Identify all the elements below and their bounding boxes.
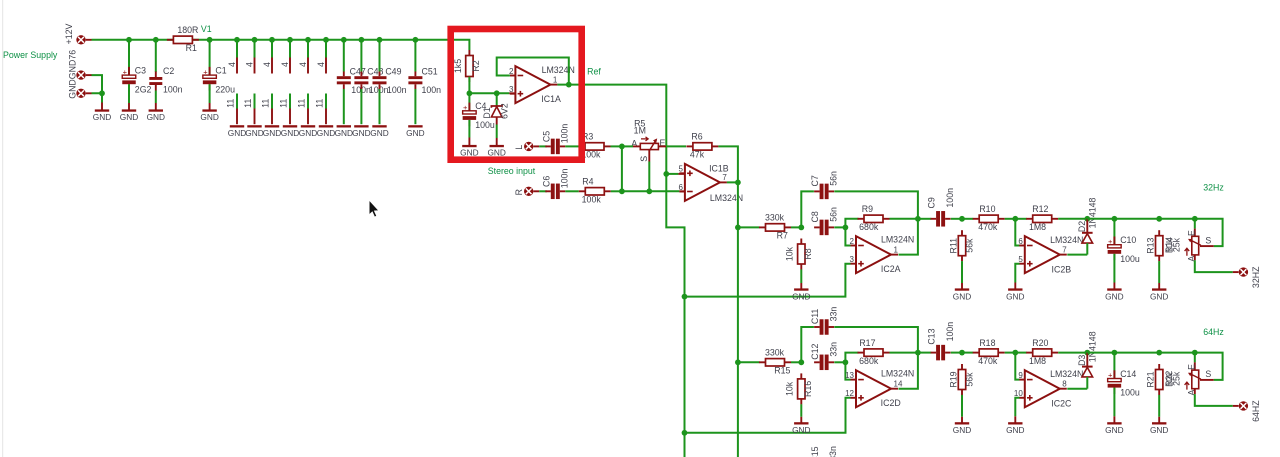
svg-text:IC2C: IC2C [1051, 399, 1072, 409]
svg-text:E: E [1187, 364, 1197, 370]
ground pin11 IC1 [228, 125, 246, 138]
ground R16 [792, 417, 810, 435]
ground pin11 IC4 [281, 125, 299, 138]
junction C12 node [843, 359, 849, 365]
wire C7 loop left [801, 191, 814, 227]
capacitor C6 100n [541, 169, 569, 200]
ground R8 [792, 283, 810, 301]
wire out line [1087, 219, 1222, 246]
wire C2 drop [155, 40, 157, 72]
svg-text:56n: 56n [828, 171, 838, 186]
label R [514, 189, 524, 195]
svg-text:470k: 470k [978, 222, 998, 232]
capacitor C14 100u [1108, 369, 1140, 398]
label GNDGND76 [68, 50, 78, 99]
svg-text:330k: 330k [765, 213, 785, 223]
resistor R1 180R [167, 25, 199, 53]
junction V+ pin IC4 [287, 37, 293, 43]
junction C51 [413, 37, 419, 43]
svg-text:GND: GND [335, 128, 353, 138]
svg-text:GND: GND [953, 425, 971, 435]
svg-text:64HZ: 64HZ [1251, 400, 1261, 422]
junction V+ pin IC3 [269, 37, 275, 43]
svg-text:11: 11 [315, 99, 325, 108]
wire S down [648, 162, 650, 192]
pad R input [524, 187, 539, 196]
wire C1 to gnd [209, 84, 211, 103]
wire C5 to R3 [565, 145, 579, 147]
wire C47 to gnd [343, 89, 345, 124]
wire pot R14 to pad [1195, 260, 1233, 272]
resistor R18 470k [973, 338, 1005, 366]
svg-text:GND: GND [953, 291, 971, 301]
wire pad2 to junction [92, 93, 103, 102]
wire mix vertical [621, 146, 623, 191]
svg-text:R17: R17 [859, 338, 875, 348]
pad 64HZ out [1239, 401, 1248, 410]
wire pin3 lead [509, 92, 515, 94]
wire R to C6 [539, 190, 547, 192]
junction diode node D3 [1084, 350, 1090, 356]
capacitor C8 56n [810, 207, 838, 235]
resistor R11 56k [949, 230, 975, 261]
wire R12 right [1058, 218, 1087, 220]
wire C47 drop [343, 40, 345, 72]
svg-text:C10: C10 [1120, 235, 1136, 245]
svg-text:GND: GND [1105, 291, 1123, 301]
svg-text:1: 1 [553, 75, 558, 84]
svg-text:100u: 100u [475, 120, 495, 130]
pin 4 V+ of IC3 [262, 40, 272, 74]
svg-text:R6: R6 [691, 132, 702, 142]
svg-text:100n: 100n [387, 85, 407, 95]
junction R14 node [1192, 216, 1198, 222]
svg-text:100n: 100n [945, 188, 955, 208]
svg-text:GND: GND [370, 128, 388, 138]
wire pin- down IC2B [1015, 219, 1019, 246]
pad L input [524, 142, 539, 151]
svg-text:GND: GND [200, 112, 218, 122]
svg-text:32HZ: 32HZ [1251, 266, 1261, 288]
ground IC2C +in [1006, 416, 1024, 435]
svg-text:C9: C9 [927, 197, 937, 208]
capacitor C13 100n [927, 322, 955, 361]
capacitor C3 2G2 [122, 66, 151, 95]
ground R11 [953, 283, 971, 301]
svg-text:R4: R4 [582, 177, 593, 187]
svg-text:R10: R10 [979, 204, 995, 214]
wire R6 right [718, 146, 738, 182]
svg-text:GND: GND [352, 128, 370, 138]
mouse cursor [369, 200, 378, 217]
svg-text:C51: C51 [422, 67, 438, 77]
svg-text:8: 8 [1062, 380, 1067, 389]
svg-text:470k: 470k [978, 356, 998, 366]
svg-text:R1: R1 [186, 43, 197, 53]
svg-text:C5: C5 [541, 131, 551, 142]
wire IC2D out up [899, 353, 918, 389]
wire C12 right [834, 361, 845, 363]
op-amp IC1A [509, 65, 575, 104]
label 32Hz [1203, 183, 1224, 193]
capacitor C5 100n [541, 124, 569, 155]
svg-text:R13: R13 [1146, 238, 1156, 254]
svg-text:C15: C15 [810, 446, 820, 457]
wire C48 to gnd [360, 89, 362, 124]
svg-text:GND: GND [792, 291, 810, 301]
svg-text:2: 2 [850, 237, 855, 246]
svg-text:LM324N: LM324N [881, 369, 914, 379]
svg-text:56k: 56k [964, 372, 974, 387]
svg-text:S: S [639, 156, 649, 162]
svg-text:GND: GND [93, 112, 111, 122]
wire node to D1 [469, 92, 509, 94]
wire bus to R15 [738, 361, 760, 363]
pad 32HZ out [1239, 267, 1248, 276]
svg-text:GND: GND [1006, 291, 1024, 301]
svg-text:R21: R21 [1146, 371, 1156, 387]
svg-text:LM324N: LM324N [1050, 369, 1083, 379]
svg-text:R19: R19 [949, 371, 959, 387]
svg-text:11: 11 [226, 99, 236, 108]
svg-text:R2: R2 [471, 60, 481, 71]
resistor R4 100k [579, 177, 611, 205]
svg-text:1k5: 1k5 [453, 59, 463, 73]
wire R18 right [1005, 352, 1016, 354]
svg-text:IC2D: IC2D [881, 398, 901, 408]
wire S lead [648, 150, 650, 162]
svg-text:C11: C11 [810, 309, 820, 325]
junction R mix [619, 188, 625, 194]
svg-text:+: + [463, 103, 468, 112]
ground GNDGND76 [93, 103, 111, 122]
wire C11 loop right [834, 327, 918, 353]
wire R10 right [1005, 218, 1016, 220]
wire Ref to IC2D pin12 [685, 398, 851, 433]
svg-text:1M8: 1M8 [1029, 356, 1046, 366]
resistor R8 10k [785, 239, 813, 270]
resistor R9 680k [858, 204, 890, 232]
wire C4 drop [468, 77, 470, 111]
wire C7 loop right [834, 191, 918, 218]
ground R13 [1150, 283, 1168, 301]
svg-text:Power Supply: Power Supply [3, 50, 58, 60]
junction V+ pin IC2 [252, 37, 258, 43]
pin 11 GND of IC2 [243, 94, 255, 125]
capacitor C51 100n [408, 67, 441, 96]
op-amp IC1B [678, 163, 743, 203]
svg-text:GND: GND [228, 128, 246, 138]
svg-text:100u: 100u [1120, 388, 1140, 398]
svg-text:11: 11 [297, 99, 307, 108]
svg-text:R7: R7 [777, 231, 788, 241]
junction R2 bottom node [467, 90, 473, 96]
svg-text:56k: 56k [964, 238, 974, 253]
svg-text:D3: D3 [1077, 355, 1087, 366]
svg-text:33n: 33n [828, 342, 838, 357]
ground C48 [352, 125, 370, 138]
wire R19 to gnd [961, 395, 963, 417]
svg-text:R18: R18 [979, 338, 995, 348]
svg-text:GND: GND [406, 128, 424, 138]
svg-text:3: 3 [850, 255, 855, 264]
junction R18 node [1012, 350, 1018, 356]
wire C13 lead [918, 352, 931, 354]
junction R11 node [959, 216, 965, 222]
ground D1 [487, 138, 505, 158]
resistor R20 1M8 [1026, 338, 1058, 366]
junction IC1B out [735, 180, 741, 186]
junction out to R7 [735, 225, 741, 231]
svg-text:11: 11 [279, 99, 289, 108]
resistor R7 330k [759, 213, 791, 241]
wire C13 right [951, 352, 962, 354]
ground C2 [147, 103, 165, 122]
wire node to pin6 [622, 190, 680, 192]
wire C12 to R17 [845, 353, 858, 363]
svg-text:14: 14 [894, 380, 903, 389]
svg-text:100n: 100n [422, 85, 442, 95]
svg-text:100n: 100n [560, 124, 570, 144]
svg-text:C49: C49 [385, 67, 401, 77]
svg-text:32Hz: 32Hz [1203, 183, 1224, 193]
resistor R16 10k [785, 373, 813, 404]
wire R17 right [890, 352, 918, 354]
svg-text:1M8: 1M8 [1029, 222, 1046, 232]
wire IC2B out [1067, 254, 1087, 256]
svg-text:1N4148: 1N4148 [1088, 331, 1098, 362]
wire E to R6 [666, 145, 686, 147]
potentiometer R22 25k [1185, 353, 1214, 396]
capacitor C12 33n [810, 342, 838, 370]
wire C8 to pin- [845, 227, 850, 245]
svg-text:12: 12 [845, 389, 854, 398]
ground pin11 IC2 [245, 125, 263, 138]
pin 11 GND of IC5 [297, 94, 309, 125]
label 33n partial [828, 446, 838, 457]
svg-text:GNDGND76: GNDGND76 [68, 50, 78, 99]
svg-text:7: 7 [722, 173, 727, 182]
diode D2 1N4148 [1077, 197, 1098, 254]
wire pin5 stub [666, 173, 685, 175]
wire C51 to gnd [414, 89, 416, 124]
svg-text:10k: 10k [785, 381, 795, 396]
svg-text:GND: GND [487, 148, 505, 158]
label L [514, 145, 524, 150]
svg-text:220u: 220u [215, 84, 235, 94]
capacitor C1 220u [203, 66, 235, 95]
junction L mix [619, 144, 625, 150]
pad +12V [76, 35, 91, 44]
wire R21 to gnd [1158, 395, 1160, 417]
svg-text:64Hz: 64Hz [1203, 327, 1224, 337]
svg-text:S: S [1205, 369, 1211, 379]
svg-text:Ref: Ref [587, 66, 601, 76]
resistor R2 1k5 [453, 50, 481, 82]
wire dot to R12 [1015, 218, 1026, 220]
capacitor C11 33n [810, 307, 838, 335]
junction R15 node [798, 359, 804, 365]
pin 4 V+ of IC1 [227, 40, 237, 74]
wire feedback IC1A [497, 58, 569, 85]
label 32HZ pad name [1251, 266, 1261, 288]
resistor R10 470k [973, 204, 1005, 232]
svg-text:100u: 100u [1120, 254, 1140, 264]
pin 11 GND of IC3 [261, 94, 273, 125]
wire C3 to gnd [128, 84, 130, 103]
svg-text:100n: 100n [945, 322, 955, 342]
capacitor C49 100n [373, 67, 407, 96]
svg-text:1M: 1M [634, 126, 646, 136]
junction C1 [207, 37, 213, 43]
svg-text:R11: R11 [949, 238, 959, 254]
svg-text:9: 9 [1018, 371, 1023, 380]
resistor R3 100k [579, 132, 611, 160]
svg-text:R16: R16 [803, 381, 813, 397]
capacitor C47 100n [337, 67, 371, 96]
svg-text:4: 4 [262, 62, 272, 67]
ground pin11 IC5 [299, 125, 317, 138]
ground C1 [200, 103, 218, 122]
svg-text:11: 11 [261, 99, 271, 108]
svg-text:13: 13 [845, 371, 854, 380]
svg-text:V1: V1 [201, 24, 212, 34]
capacitor C4 100u [463, 101, 495, 130]
junction Ref to pin12 [682, 430, 688, 436]
svg-text:LM324N: LM324N [881, 235, 914, 245]
svg-text:100n: 100n [560, 169, 570, 189]
wire Ref to IC2A pin3 [685, 264, 851, 297]
wire C48 drop [360, 40, 362, 72]
label 64HZ pad name [1251, 400, 1261, 422]
svg-text:4: 4 [280, 62, 290, 67]
svg-text:C47: C47 [350, 67, 366, 77]
svg-text:R12: R12 [1032, 204, 1048, 214]
capacitor C10 100u [1108, 235, 1140, 264]
svg-text:LM324N: LM324N [1050, 235, 1083, 245]
svg-text:R8: R8 [803, 248, 813, 259]
wire C14 to gnd [1113, 388, 1115, 417]
wire C9 lead [918, 218, 931, 220]
svg-text:C7: C7 [810, 175, 820, 186]
svg-text:47k: 47k [690, 150, 705, 160]
junction C49 [377, 37, 383, 43]
svg-text:IC2A: IC2A [881, 264, 901, 274]
resistor R21 10k [1146, 364, 1182, 395]
ground R21 [1150, 417, 1168, 435]
svg-text:IC2B: IC2B [1052, 264, 1072, 274]
ground IC2B +in [1006, 283, 1024, 302]
junction R21 node [1156, 350, 1162, 356]
wire IC2A out up [899, 219, 918, 255]
svg-text:S: S [1205, 235, 1211, 245]
resistor R12 1M8 [1026, 204, 1058, 232]
resistor R13 10k [1146, 230, 1182, 261]
svg-text:R9: R9 [862, 204, 873, 214]
resistor R17 680k [858, 338, 890, 366]
svg-text:R20: R20 [1032, 338, 1048, 348]
wire R4 to node [611, 190, 622, 192]
wire C10 to gnd [1113, 254, 1115, 283]
svg-text:6: 6 [678, 183, 683, 192]
wire dot to R20 [1015, 352, 1026, 354]
wire 32HZ pad lead [1233, 271, 1239, 273]
svg-text:GND: GND [1150, 425, 1168, 435]
ground pin11 IC6 [317, 125, 335, 138]
svg-text:+: + [123, 67, 128, 76]
wire pin+ to gnd IC2B [1015, 264, 1019, 283]
svg-text:C13: C13 [927, 328, 937, 344]
svg-text:GND: GND [317, 128, 335, 138]
wire R16 to gnd [800, 404, 802, 417]
ground C47 [335, 125, 353, 138]
junction S node [646, 188, 652, 194]
wire C49 drop [379, 40, 381, 72]
wire R15 right [791, 361, 801, 363]
ground C4 [460, 138, 478, 158]
capacitor C7 56n [810, 171, 838, 199]
junction V+ pin IC1 [234, 37, 240, 43]
svg-text:33n: 33n [828, 307, 838, 322]
junction C3 [126, 37, 132, 43]
junction V+ pin IC6 [323, 37, 329, 43]
wire R11 to gnd [961, 261, 963, 283]
resistor R15 330k [759, 348, 791, 376]
label 64Hz [1203, 327, 1224, 337]
svg-text:R14: R14 [1164, 237, 1174, 253]
junction IC1A output [566, 82, 572, 88]
svg-text:11: 11 [243, 99, 253, 108]
wire C14 drop [1113, 353, 1115, 379]
svg-text:D2: D2 [1077, 221, 1087, 232]
wire R20 right [1058, 352, 1087, 354]
highlight rectangle [451, 29, 582, 160]
wire +12V rail [92, 40, 470, 50]
svg-text:C12: C12 [810, 344, 820, 360]
svg-text:GND: GND [460, 148, 478, 158]
svg-text:C8: C8 [810, 211, 820, 222]
svg-text:GND: GND [120, 112, 138, 122]
svg-text:GND: GND [1105, 425, 1123, 435]
pin 4 V+ of IC6 [316, 40, 326, 74]
wire dot to R18 [962, 352, 973, 354]
wire R7 right [791, 226, 801, 228]
svg-text:680k: 680k [859, 222, 879, 232]
wire C8 right [834, 226, 845, 228]
wire pin6 lead [679, 190, 685, 192]
wire C4 to gnd [468, 120, 470, 138]
svg-text:7: 7 [1062, 245, 1067, 254]
svg-text:Stereo input: Stereo input [488, 166, 536, 176]
junction R17 out node [915, 350, 921, 356]
wire C49 to gnd [379, 89, 381, 124]
svg-text:+: + [203, 67, 208, 76]
wire pad1 to corner [92, 75, 103, 93]
junction Ref to pin3 [682, 294, 688, 300]
junction C10 node [1112, 216, 1118, 222]
pin 4 V+ of IC5 [298, 40, 308, 74]
pad GNDGND76 top [76, 70, 91, 79]
svg-text:C6: C6 [541, 176, 551, 187]
wire pot R22 to pad [1195, 394, 1233, 406]
wire pin- down IC2C [1015, 353, 1019, 380]
wire R3 to node [611, 145, 622, 147]
svg-text:680k: 680k [859, 356, 879, 366]
svg-text:180R: 180R [177, 25, 198, 35]
pin 11 GND of IC1 [226, 94, 238, 125]
svg-text:R22: R22 [1164, 371, 1174, 387]
label Ref [587, 66, 601, 76]
